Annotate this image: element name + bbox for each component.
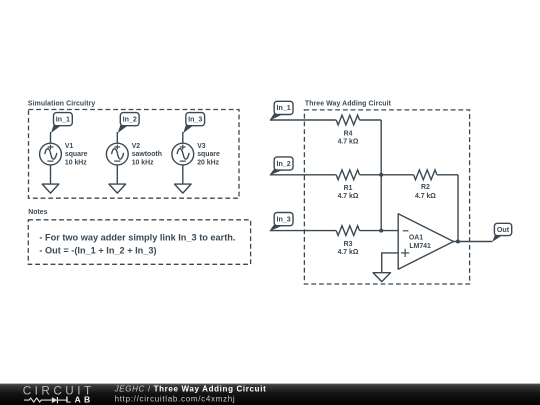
svg-text:V1: V1 <box>65 143 74 150</box>
junction (summing node / In_2 row) <box>379 173 383 177</box>
resistor R2 <box>414 170 437 180</box>
value label R4 4.7 kΩ <box>338 130 359 145</box>
svg-text:R4: R4 <box>344 130 353 137</box>
svg-text:R3: R3 <box>344 241 353 248</box>
svg-text:square: square <box>197 151 220 158</box>
svg-text:V2: V2 <box>132 143 141 150</box>
wire <box>116 132 118 143</box>
value label V2 sawtooth 10 kHz <box>132 143 162 166</box>
svg-text:4.7 kΩ: 4.7 kΩ <box>338 249 359 256</box>
footer title line <box>114 384 267 393</box>
annotation box: Three Way Adding Circuit dashed rectangle <box>304 110 469 284</box>
ground <box>109 184 126 193</box>
ground <box>175 184 192 193</box>
svg-text:In_3: In_3 <box>188 116 202 124</box>
node In_2 flag <box>118 113 139 133</box>
value label V1 square 10 kHz <box>65 143 88 166</box>
junction (summing node at minus input) <box>379 229 383 233</box>
svg-text:sawtooth: sawtooth <box>132 151 162 158</box>
node In_1 flag <box>51 113 72 133</box>
resistor R1 <box>336 170 359 180</box>
svg-text:In_1: In_1 <box>56 116 70 124</box>
ground <box>373 273 390 282</box>
wire <box>270 119 336 121</box>
svg-text:R1: R1 <box>344 185 353 192</box>
svg-text:OA1: OA1 <box>409 235 423 242</box>
wire <box>270 230 336 232</box>
logo CIRCUIT text <box>23 385 95 398</box>
svg-text:- Out = -(In_1 + In_2 + In_3): - Out = -(In_1 + In_2 + In_3) <box>39 246 156 256</box>
voltage source V2 <box>106 143 128 165</box>
node In_3 flag <box>183 113 204 133</box>
svg-text:Out: Out <box>497 226 510 234</box>
svg-text:10 kHz: 10 kHz <box>132 159 154 166</box>
wire <box>50 132 52 143</box>
annotation label: Notes <box>28 209 47 216</box>
svg-text:4.7 kΩ: 4.7 kΩ <box>338 138 359 145</box>
resistor R3 <box>336 226 359 236</box>
wire <box>360 230 399 232</box>
svg-text:LAB: LAB <box>66 395 94 405</box>
note text line 2 <box>39 246 156 256</box>
node In_3 flag <box>270 213 293 232</box>
wire (vertical from R4 to summing node) <box>380 120 382 231</box>
wire <box>270 174 336 176</box>
op-amp OA1 <box>398 214 453 269</box>
note text line 1 <box>39 233 235 243</box>
svg-text:In_1: In_1 <box>276 104 290 112</box>
wire <box>360 119 382 121</box>
resistor R4 <box>336 115 359 125</box>
wire <box>182 132 184 143</box>
logo resistor squiggle + diode + LAB <box>24 395 94 405</box>
svg-text:square: square <box>65 151 88 158</box>
wire <box>116 165 118 184</box>
svg-text:JEGHC / Three Way Adding Circu: JEGHC / Three Way Adding Circuit <box>114 384 267 393</box>
ground <box>42 184 59 193</box>
annotation box: Simulation Circuitry dashed rectangle <box>29 110 240 199</box>
svg-text:In_2: In_2 <box>276 160 290 168</box>
wire (plus input to ground) <box>382 253 399 273</box>
wire <box>182 165 184 184</box>
svg-text:4.7 kΩ: 4.7 kΩ <box>338 193 359 200</box>
node In_1 flag <box>270 101 293 120</box>
wire (output) <box>454 241 493 243</box>
junction (output node) <box>456 240 460 244</box>
svg-text:Three Way Adding Circuit: Three Way Adding Circuit <box>305 101 392 108</box>
footer url line <box>115 394 236 403</box>
wire (feedback vertical to output) <box>457 175 459 242</box>
svg-text:4.7 kΩ: 4.7 kΩ <box>415 193 436 200</box>
value label R1 4.7 kΩ <box>338 185 359 200</box>
svg-text:Simulation Circuitry: Simulation Circuitry <box>28 101 96 108</box>
annotation label: Three Way Adding Circuit <box>305 101 392 108</box>
value label R3 4.7 kΩ <box>338 241 359 256</box>
svg-text:V3: V3 <box>197 143 206 150</box>
svg-text:10 kHz: 10 kHz <box>65 159 87 166</box>
svg-text:20 kHz: 20 kHz <box>197 159 219 166</box>
svg-text:- For two way adder simply lin: - For two way adder simply link In_3 to … <box>39 233 235 243</box>
svg-text:http://circuitlab.com/c4xmzhj: http://circuitlab.com/c4xmzhj <box>115 394 236 403</box>
voltage source V3 <box>172 143 194 165</box>
svg-text:R2: R2 <box>421 184 430 191</box>
svg-text:Notes: Notes <box>28 209 47 216</box>
svg-text:In_2: In_2 <box>123 116 137 124</box>
voltage source V1 <box>40 143 62 165</box>
value label V3 square 20 kHz <box>197 143 220 166</box>
wire <box>437 174 458 176</box>
annotation label: Simulation Circuitry <box>28 101 96 108</box>
node In_2 flag <box>270 157 293 175</box>
footer bar <box>0 384 540 405</box>
svg-text:In_3: In_3 <box>276 215 290 223</box>
value label OA1 LM741 <box>409 235 431 250</box>
wire <box>50 165 52 184</box>
value label R2 4.7 kΩ <box>415 184 436 200</box>
annotation box: Notes dashed rectangle <box>28 220 250 264</box>
wire <box>360 174 414 176</box>
node Out flag <box>492 223 512 242</box>
svg-text:LM741: LM741 <box>409 243 431 250</box>
